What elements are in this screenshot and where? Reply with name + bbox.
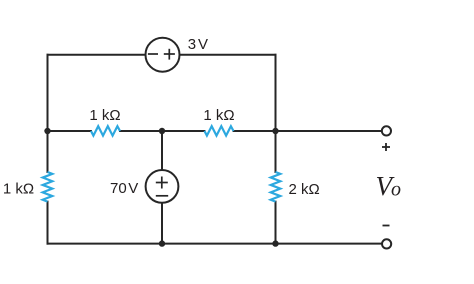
svg-text:o: o xyxy=(391,179,401,201)
svg-text:1 kΩ: 1 kΩ xyxy=(203,107,234,124)
svg-text:2 kΩ: 2 kΩ xyxy=(289,181,320,198)
svg-text:1 kΩ: 1 kΩ xyxy=(3,181,34,198)
svg-text:3: 3 xyxy=(188,36,196,53)
svg-text:1 kΩ: 1 kΩ xyxy=(89,107,120,124)
svg-text:70: 70 xyxy=(110,180,127,197)
svg-text:V: V xyxy=(198,36,208,53)
svg-text:V: V xyxy=(128,180,138,197)
